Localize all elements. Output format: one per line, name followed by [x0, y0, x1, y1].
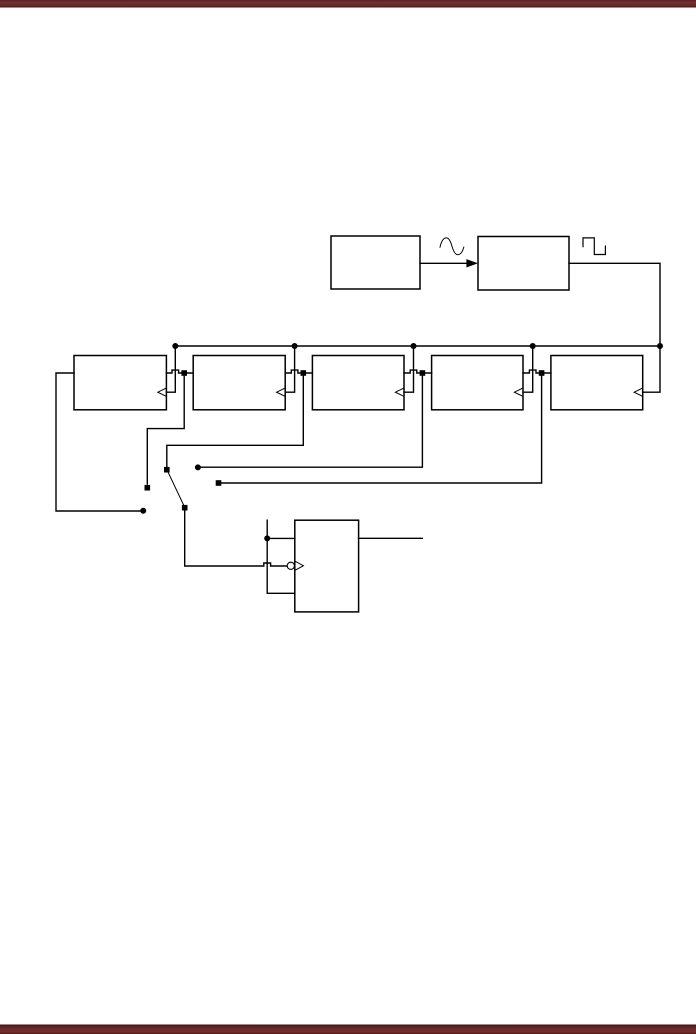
bus top horizontal line [175, 345, 660, 347]
wire U2 out to U1 clock region with hop over drop (gap 1) [166, 370, 193, 373]
switch contact A [145, 485, 151, 491]
wire U4 out to U3 clock region with hop over drop (gap 3) [404, 370, 432, 373]
bottom maroon page bar [0, 1025, 696, 1034]
junction tap 1 (square) [181, 370, 187, 376]
wire switch pole down and right to output FF clock [185, 510, 288, 566]
junction tap 3 (square) [420, 370, 426, 376]
switch contact D [216, 480, 222, 486]
wire U6 D input [267, 537, 295, 539]
junction U6 D loop [264, 535, 270, 541]
switch contact E [140, 508, 146, 514]
wire U6 feedback loop (Qbar to D) [267, 520, 295, 593]
block Schmitt trigger (squarer) [478, 237, 569, 291]
wire U6 output [359, 537, 423, 539]
wire oscillator output to Schmitt input [420, 262, 467, 264]
wire clock drop into U3 [404, 346, 414, 392]
junction CLK/bus [657, 343, 663, 349]
divider block U1 [74, 356, 166, 410]
output flip-flop block U6 [295, 520, 359, 612]
wire U5 out to U4 clock region with hop over drop (gap 4) [523, 370, 551, 373]
switch contact C [195, 464, 201, 470]
divider block U2 [193, 356, 285, 410]
top maroon page bar [0, 0, 696, 8]
clock triangle U3 [395, 388, 403, 396]
junction tap 2 (square) [301, 370, 307, 376]
clock triangle U4 [514, 388, 522, 396]
junction bus drop 2 [292, 343, 298, 349]
switch blade (rotary selector) [167, 470, 185, 507]
block oscillator (sine source) [331, 236, 420, 289]
wire clock drop into U1 [166, 346, 175, 392]
junction tap 4 (square) [539, 370, 545, 376]
divider block U4 [432, 356, 523, 410]
divider block U3 [312, 356, 404, 410]
square wave symbol [583, 238, 605, 255]
wire Schmitt output to divider chain clock (net CLK) [569, 263, 660, 392]
sine wave symbol [440, 238, 464, 255]
arrowhead on oscillator output [466, 259, 478, 267]
wire clock drop into U4 [523, 346, 533, 392]
switch contact B [164, 467, 170, 473]
wire U3 out to U2 clock region with hop over drop (gap 2) [285, 370, 312, 373]
switch pivot [182, 505, 188, 511]
wire tap1 down to switch contact A [147, 376, 184, 484]
wire tap3 down to switch contact C [200, 376, 422, 467]
junction bus drop 4 [530, 343, 536, 349]
wire U1 out loop to switch contact E [56, 373, 141, 511]
clock triangle U2 [277, 388, 285, 396]
wire clock drop into U2 [285, 346, 294, 392]
wire tap2 down to switch contact B [167, 376, 303, 467]
clock triangle U1 [158, 388, 166, 396]
wire tap4 down to switch contact D [221, 376, 542, 483]
junction bus drop 1 [172, 343, 178, 349]
clock triangle U5 [634, 388, 642, 396]
clock triangle U6 [295, 561, 303, 570]
junction bus drop 3 [411, 343, 417, 349]
divider block U5 [551, 356, 643, 410]
clock inversion bubble U6 [287, 562, 294, 569]
